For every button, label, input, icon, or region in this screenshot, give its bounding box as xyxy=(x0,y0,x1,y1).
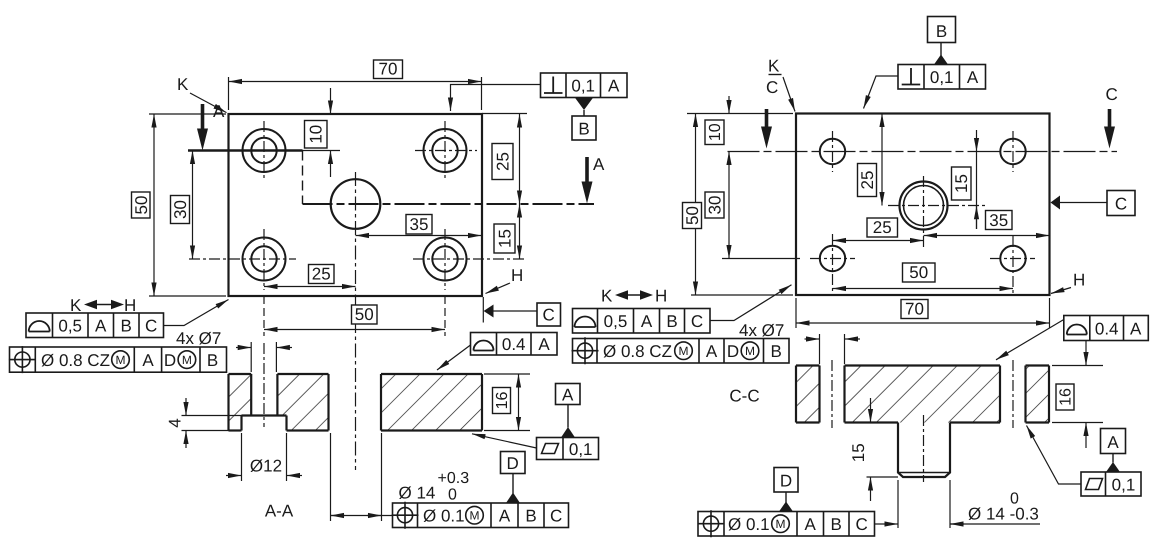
section C-C outline xyxy=(796,366,1049,423)
dimension 25 horizontal (right view) xyxy=(833,240,924,242)
datum C left view xyxy=(482,297,484,323)
dimension 15 vertical (right view) xyxy=(976,130,978,229)
svg-text:H: H xyxy=(124,296,136,315)
svg-text:A: A xyxy=(538,335,550,354)
svg-text:0,1: 0,1 xyxy=(1112,476,1136,495)
centerlines left view holes xyxy=(189,121,526,290)
svg-text:4x Ø7: 4x Ø7 xyxy=(739,321,784,340)
svg-text:B: B xyxy=(831,515,842,534)
svg-text:A: A xyxy=(805,515,817,534)
svg-text:M: M xyxy=(745,344,755,358)
datum A box (section C-C) xyxy=(1101,429,1126,454)
svg-text:A: A xyxy=(142,351,154,370)
dimension 25 vertical (right view) xyxy=(881,114,883,206)
svg-text:50: 50 xyxy=(909,263,928,282)
hole bottom-left xyxy=(243,238,286,281)
svg-text:10: 10 xyxy=(307,125,326,144)
svg-text:B: B xyxy=(525,507,536,526)
svg-text:B: B xyxy=(121,317,132,336)
hatching section C-C xyxy=(796,366,1049,423)
dimension Ø14 +0.3/0 with position frame xyxy=(331,433,393,521)
dimension 30 left xyxy=(192,151,194,260)
svg-text:50: 50 xyxy=(355,305,374,324)
dimension 10 (top edge to hole line) xyxy=(330,88,332,177)
svg-text:H: H xyxy=(1073,271,1085,290)
svg-text:C: C xyxy=(766,78,778,97)
center hole Ø14 left view xyxy=(331,179,381,229)
svg-text:D: D xyxy=(164,351,176,370)
svg-text:H: H xyxy=(655,287,667,306)
svg-text:A: A xyxy=(499,507,511,526)
svg-text:A: A xyxy=(1130,320,1142,339)
svg-text:15: 15 xyxy=(952,174,971,193)
datum B symbol (left view) xyxy=(575,98,593,111)
section cut step xyxy=(302,151,304,205)
Ø14 hole walls in section xyxy=(329,374,382,431)
svg-text:C: C xyxy=(543,306,555,325)
svg-text:M: M xyxy=(679,344,689,358)
svg-text:D: D xyxy=(507,454,519,473)
svg-text:25: 25 xyxy=(858,171,877,190)
centerline center hole vertical (projects into section A-A) xyxy=(355,172,357,470)
svg-text:70: 70 xyxy=(379,60,398,79)
datum D symbol (section C-C) xyxy=(774,468,798,493)
svg-text:C: C xyxy=(1115,195,1127,214)
svg-text:B: B xyxy=(666,312,677,331)
hole top-right xyxy=(424,129,467,172)
Ø7 dimension arrows (right section) xyxy=(805,334,861,364)
svg-text:Ø 0.1: Ø 0.1 xyxy=(728,515,770,534)
dimension Ø12 xyxy=(226,433,302,481)
centerlines section C-C xyxy=(832,360,1013,482)
profile frame 0.4 A (section C-C) + leader xyxy=(1064,316,1149,341)
svg-text:C: C xyxy=(1106,85,1118,104)
plate outline right view xyxy=(796,114,1050,296)
dimension 4 (counterbore depth) xyxy=(182,398,242,448)
svg-text:D: D xyxy=(727,342,739,361)
svg-text:+0.3: +0.3 xyxy=(438,470,470,487)
svg-text:Ø 14 -0.3: Ø 14 -0.3 xyxy=(968,505,1039,524)
dimension 10 (right view) xyxy=(728,96,730,114)
position frame Ø0.8 CZ(M) A D(M) B (right) xyxy=(572,337,790,364)
svg-text:25: 25 xyxy=(312,265,331,284)
Ø7 hole walls in section C-C xyxy=(820,366,1026,423)
leader from frame to top face xyxy=(451,85,541,112)
centerline Ø7 hole section xyxy=(263,343,265,427)
svg-text:Ø 14: Ø 14 xyxy=(399,484,436,503)
svg-text:C: C xyxy=(550,507,562,526)
svg-text:15: 15 xyxy=(849,443,868,462)
section arrow A left xyxy=(201,104,205,130)
svg-text:M: M xyxy=(776,517,786,531)
svg-text:0,5: 0,5 xyxy=(604,312,628,331)
svg-text:C: C xyxy=(145,317,157,336)
svg-text:A: A xyxy=(593,155,605,174)
svg-text:35: 35 xyxy=(989,211,1008,230)
projection lines bottom holes to 50 dim xyxy=(263,296,265,336)
svg-text:0,1: 0,1 xyxy=(571,77,595,96)
dimension 70 top xyxy=(229,77,482,110)
svg-text:Ø12: Ø12 xyxy=(250,457,282,476)
plate outline left view xyxy=(229,114,483,296)
datum A box (section A-A) xyxy=(556,384,581,405)
perpendicularity frame 0,1 A (right view) xyxy=(898,65,986,90)
svg-text:B: B xyxy=(936,22,947,41)
svg-text:A-A: A-A xyxy=(265,502,294,521)
dimension 70 (below right view) xyxy=(796,298,1050,328)
svg-text:M: M xyxy=(470,509,480,523)
dimension Ø14 0/-0.3 xyxy=(875,480,1041,528)
svg-text:A: A xyxy=(706,342,718,361)
svg-text:A: A xyxy=(95,317,107,336)
leader profile frame to left edge (right view) xyxy=(710,285,792,321)
svg-text:K: K xyxy=(768,57,780,76)
section cut line A-A upper segment xyxy=(188,149,303,151)
svg-text:0.4: 0.4 xyxy=(1095,320,1119,339)
svg-text:A: A xyxy=(967,68,979,87)
svg-text:0.4: 0.4 xyxy=(502,335,526,354)
profile of surface frame 0,5 A B C (right) xyxy=(573,309,711,334)
cut line C-C through top holes xyxy=(728,151,1118,153)
datum D symbol over frame xyxy=(501,452,526,474)
svg-text:A: A xyxy=(562,386,574,405)
svg-text:D: D xyxy=(780,472,792,491)
Ø12 counterbore in section xyxy=(242,416,287,431)
svg-text:70: 70 xyxy=(905,300,924,319)
hole top-left (counterbore + thru) xyxy=(243,129,286,172)
dimension 35 xyxy=(356,235,482,237)
dimension 15 (pin length) xyxy=(867,398,899,501)
svg-text:35: 35 xyxy=(410,215,429,234)
svg-text:K: K xyxy=(601,287,613,306)
perpendicularity frame 0,1 A (left view) xyxy=(541,73,628,98)
svg-text:A: A xyxy=(641,312,653,331)
section cut line A-A lower segment xyxy=(303,203,595,205)
datum C right edge (right view) xyxy=(1051,196,1061,210)
svg-text:15: 15 xyxy=(496,229,515,248)
svg-text:0,5: 0,5 xyxy=(58,317,82,336)
dimension 50 left xyxy=(149,114,226,296)
svg-text:25: 25 xyxy=(873,218,892,237)
svg-text:0: 0 xyxy=(448,487,457,504)
Ø7 hole walls in section xyxy=(251,374,277,416)
leader frame to top face (right view) xyxy=(864,76,899,109)
leader profile frame to corner xyxy=(164,300,229,326)
svg-text:H: H xyxy=(511,266,523,285)
dimension 50 horizontal (right view) xyxy=(833,288,1014,290)
flatness frame 0,1 (section C-C) xyxy=(1081,472,1141,496)
svg-text:30: 30 xyxy=(706,196,725,215)
svg-text:0,1: 0,1 xyxy=(930,68,954,87)
datum B top (right view) xyxy=(928,17,956,43)
center pin Ø14 right view xyxy=(900,182,948,230)
svg-text:4: 4 xyxy=(166,418,185,427)
svg-text:B: B xyxy=(578,120,589,139)
dimension 30 (right view) xyxy=(728,152,730,259)
profile frame 0.4 A (section A-A) + leader xyxy=(471,333,558,356)
svg-text:16: 16 xyxy=(1058,388,1075,406)
svg-text:A: A xyxy=(1107,433,1119,452)
svg-text:16: 16 xyxy=(494,392,511,410)
section arrow C left xyxy=(765,109,769,128)
svg-text:Ø 0.1: Ø 0.1 xyxy=(423,507,465,526)
svg-text:C: C xyxy=(856,515,868,534)
position frame Ø0.1(M) A B C (section C-C) xyxy=(698,510,875,537)
position frame Ø0.1(M) A B C (section A-A) xyxy=(392,502,569,529)
svg-text:0,1: 0,1 xyxy=(569,440,593,459)
dimension 50 left of right view xyxy=(687,114,793,296)
svg-text:M: M xyxy=(182,353,192,367)
section arrow A right xyxy=(585,157,589,183)
svg-text:4x Ø7: 4x Ø7 xyxy=(176,329,221,348)
svg-text:C: C xyxy=(691,312,703,331)
centerlines right view xyxy=(810,131,1035,293)
svg-text:M: M xyxy=(116,353,126,367)
svg-text:Ø 0.8 CZ: Ø 0.8 CZ xyxy=(41,351,110,370)
section A-A outline xyxy=(229,374,483,431)
dimension 15 right vertical xyxy=(519,204,521,259)
svg-text:K: K xyxy=(177,75,189,94)
dimension 25 bottom (hole to center) xyxy=(264,286,356,288)
svg-text:0: 0 xyxy=(1010,491,1019,508)
Ø7 dimension arrows (left section) xyxy=(236,342,292,372)
dimension 35 (right view) xyxy=(924,235,1050,237)
Ø14 pin protruding below xyxy=(898,423,950,478)
dimension 50 bottom xyxy=(264,329,445,331)
flatness frame 0,1 (section A-A) xyxy=(537,438,599,460)
svg-text:A: A xyxy=(608,77,620,96)
svg-text:B: B xyxy=(207,351,218,370)
svg-text:30: 30 xyxy=(171,200,190,219)
dimension 16 (section C-C) xyxy=(1052,341,1103,449)
profile of surface frame 0,5 A B C (left) xyxy=(26,313,164,338)
dimension 25 right vertical xyxy=(482,113,527,115)
svg-text:K: K xyxy=(70,296,82,315)
dimension 16 (section A-A) xyxy=(484,374,530,431)
svg-text:B: B xyxy=(771,342,782,361)
svg-text:50: 50 xyxy=(683,206,702,225)
hatching section A-A xyxy=(229,374,483,431)
svg-text:50: 50 xyxy=(132,196,151,215)
svg-text:10: 10 xyxy=(707,123,724,141)
hole bottom-right xyxy=(424,238,467,281)
svg-text:C-C: C-C xyxy=(729,387,759,406)
holes right view Ø7 xyxy=(820,139,1026,271)
svg-text:25: 25 xyxy=(494,152,513,171)
svg-text:Ø 0.8 CZ: Ø 0.8 CZ xyxy=(603,342,672,361)
position frame Ø0.8 CZ(M) A D(M) B (left) xyxy=(9,346,227,373)
